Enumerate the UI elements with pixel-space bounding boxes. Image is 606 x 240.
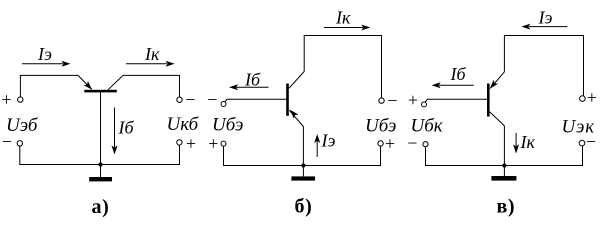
transistor Q3 base bar — [487, 84, 490, 117]
wire top b — [304, 36, 381, 98]
arrow Ik b — [324, 25, 371, 31]
plus sign left-bottom b — [208, 133, 218, 153]
terminal node right-bottom a — [177, 140, 182, 145]
arrow Ib a — [112, 108, 118, 155]
svg-text:Iк: Iк — [335, 7, 351, 27]
svg-text:−: − — [407, 133, 417, 153]
terminal node right-top v — [580, 96, 586, 102]
label Ik current a — [144, 44, 160, 64]
svg-text:Iк: Iк — [144, 44, 160, 64]
arrow Ib b — [229, 84, 269, 90]
label Ube voltage b left — [212, 114, 243, 135]
caption v — [497, 196, 516, 218]
junction node b — [301, 163, 305, 167]
wire top v — [504, 36, 583, 96]
minus sign right-top a — [185, 90, 195, 110]
svg-text:Iб: Iб — [118, 118, 135, 138]
label Ib current v — [450, 64, 467, 84]
svg-text:Iэ: Iэ — [538, 7, 553, 27]
svg-text:−: − — [387, 91, 397, 111]
wire left-bottom b — [224, 146, 304, 165]
svg-text:+: + — [1, 90, 11, 110]
svg-text:−: − — [207, 90, 217, 110]
transistor Q3 emitter lead — [490, 72, 505, 89]
label Ik current v — [520, 132, 536, 152]
wire right-top a — [123, 75, 180, 97]
svg-text:+: + — [208, 133, 218, 153]
arrow Ie b — [314, 134, 320, 157]
wire emitter vertical b — [302, 127, 304, 166]
wire base v — [425, 99, 487, 102]
svg-text:в): в) — [497, 196, 516, 218]
junction node a — [98, 162, 102, 166]
wire right-bottom b — [303, 146, 380, 166]
svg-text:Iб: Iб — [244, 69, 261, 89]
svg-text:+: + — [186, 134, 196, 154]
wire right-bottom v — [504, 146, 582, 166]
minus sign left-bottom a — [2, 132, 12, 152]
svg-text:Uкб: Uкб — [167, 114, 200, 135]
circuit a) common-base: label Ie current — [37, 44, 52, 64]
arrow Ie v — [521, 24, 567, 30]
minus sign right-bottom v — [586, 132, 596, 152]
transistor Q1 base bar — [84, 90, 117, 93]
terminal node right-bottom b — [378, 141, 383, 146]
ground b — [291, 166, 315, 181]
plus sign right-bottom a — [186, 134, 196, 154]
svg-text:а): а) — [92, 196, 110, 218]
terminal node left-top a — [18, 97, 23, 102]
minus sign left-bottom v — [407, 133, 417, 153]
circuit b) common-emitter: label Ik current — [335, 7, 351, 27]
label Ueb voltage a — [6, 115, 39, 136]
plus sign left-top v — [408, 90, 418, 110]
svg-text:Uбэ: Uбэ — [212, 114, 243, 135]
svg-text:Iб: Iб — [450, 64, 467, 84]
ground a — [89, 165, 112, 182]
arrow Ie a — [22, 61, 71, 67]
terminal node left-top b — [221, 102, 226, 107]
terminal node left-top v — [422, 102, 427, 107]
svg-text:−: − — [185, 90, 195, 110]
plus sign right-top v — [587, 88, 597, 108]
wire left-top a — [20, 75, 78, 97]
arrow Ik a — [126, 61, 175, 67]
wire bottom a — [20, 145, 180, 164]
terminal node right-top a — [177, 97, 182, 102]
arrow Ib v — [432, 82, 474, 88]
wire collector vertical v — [503, 126, 505, 166]
label Ib current b — [244, 69, 261, 89]
wire base b — [225, 99, 286, 102]
minus sign right-top b — [387, 91, 397, 111]
plus sign right-bottom b — [385, 134, 395, 154]
arrow Ik v — [513, 133, 519, 154]
label Ube voltage b right — [365, 115, 396, 136]
svg-text:+: + — [587, 88, 597, 108]
svg-text:−: − — [586, 132, 596, 152]
caption b — [295, 196, 313, 218]
svg-text:+: + — [385, 134, 395, 154]
svg-text:б): б) — [295, 196, 313, 218]
label Uek voltage v — [562, 117, 596, 138]
transistor Q1 emitter lead — [78, 75, 92, 89]
caption a — [92, 196, 110, 218]
label Ukb voltage a — [167, 114, 200, 135]
transistor Q2 base bar — [286, 84, 289, 116]
svg-text:Iк: Iк — [520, 132, 536, 152]
label Ubk voltage v — [411, 116, 444, 137]
wire left-bottom v — [426, 147, 505, 166]
terminal node left-bottom b — [221, 141, 226, 146]
ground v — [491, 166, 516, 181]
minus sign left-top b — [207, 90, 217, 110]
terminal node right-top b — [379, 98, 384, 103]
terminal node right-bottom v — [579, 140, 585, 146]
transistor Q1 collector lead — [108, 75, 123, 89]
junction node v — [502, 163, 506, 167]
circuit v) common-collector: label Ie current — [538, 7, 553, 27]
transistor Q1 base lead wire — [100, 92, 102, 164]
svg-text:−: − — [2, 132, 12, 152]
transistor Q2 emitter lead — [289, 110, 303, 127]
svg-text:+: + — [408, 90, 418, 110]
svg-text:Iэ: Iэ — [37, 44, 52, 64]
terminal node left-bottom v — [423, 142, 428, 147]
label Ib current a — [118, 118, 135, 138]
label Ie current b — [321, 130, 336, 150]
transistor Q3 collector lead — [490, 112, 505, 126]
transistor Q2 collector lead — [289, 72, 304, 89]
terminal node left-bottom a — [17, 141, 22, 146]
svg-text:Iэ: Iэ — [321, 130, 336, 150]
plus sign left-top a — [1, 90, 11, 110]
